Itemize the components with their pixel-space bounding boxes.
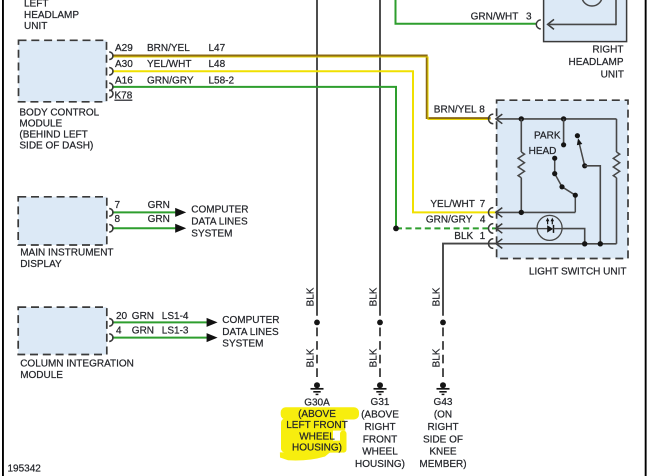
svg-text:DATA LINES: DATA LINES [222,327,279,338]
svg-text:3: 3 [526,11,532,22]
label YEL/WHT 7 [430,199,485,210]
light switch pin 1 internal bus [496,243,617,245]
svg-text:A16: A16 [115,75,133,86]
main instrument display box [18,197,107,245]
svg-text:HEADLAMP: HEADLAMP [568,57,623,68]
svg-text:GRN/WHT: GRN/WHT [471,11,519,22]
svg-text:SIDE OF DASH): SIDE OF DASH) [19,141,93,152]
junction splice dot wire G43 [440,320,446,326]
page border right [645,0,647,476]
wire GRN/WHT to right headlamp pin 3 [396,0,538,24]
wire BLK vertical to ground G30A [316,0,318,381]
junction dot pin1/wiper [598,241,603,246]
right headlamp inner wire [615,0,617,25]
wire GRN/GRY L58-2 from BCM A16 to splice [112,87,396,229]
svg-text:BRN/YEL: BRN/YEL [147,43,190,54]
svg-text:YEL/WHT: YEL/WHT [430,199,474,210]
svg-text:RIGHT: RIGHT [427,422,458,433]
right branch wire to resistor [616,119,618,152]
label pin A30 row [115,59,226,70]
junction dot pin1/LED [582,241,587,246]
splice dot GRN/GRY [393,226,399,232]
svg-text:UNIT: UNIT [601,69,624,80]
svg-text:MODULE: MODULE [20,370,63,381]
wire GRN LS1-4 from CIM pin 20 to data line arrow [112,321,208,323]
connector pin 4 at CIM [109,334,113,342]
svg-text:COMPUTER: COMPUTER [191,205,248,216]
wire YEL/WHT L48 from BCM A30 to light switch pin 7 [112,71,496,212]
svg-text:(ON: (ON [434,410,452,421]
svg-text:HOUSING): HOUSING) [292,443,342,454]
svg-text:HEAD: HEAD [529,146,557,157]
svg-text:COLUMN INTEGRATION: COLUMN INTEGRATION [20,359,134,370]
svg-text:K78: K78 [115,91,133,102]
label GRN/WHT 3 [471,11,532,22]
label pin A16 row [115,75,235,86]
svg-text:4: 4 [116,326,122,337]
wire BLK from light switch pin 1 to ground G43 [443,244,496,381]
svg-text:BLK: BLK [369,348,380,367]
svg-text:GRN: GRN [148,214,170,225]
resistor left [518,152,524,178]
column integration module box [18,307,107,354]
svg-text:L58-2: L58-2 [209,75,235,86]
wire BRN/YEL L47 from BCM A29 to light switch pin 8 [112,56,491,120]
svg-text:(BEHIND LEFT: (BEHIND LEFT [19,130,87,141]
label computer data lines system CIM [222,315,279,350]
arrowhead CIM pin20 [207,318,218,327]
label main instrument display [20,248,113,271]
light switch unit box [497,100,628,258]
arrowhead MID pin8 [175,224,186,233]
switch wiper arrow [575,133,588,168]
label BLK 1 [454,231,485,242]
svg-text:WHEEL: WHEEL [299,431,335,442]
label ground G43 [419,397,466,470]
svg-text:8: 8 [115,214,121,225]
label CIM pin 20 GRN LS1-4 [116,311,189,322]
svg-text:LIGHT SWITCH UNIT: LIGHT SWITCH UNIT [529,266,627,277]
wire GRN from MID pin 8 to data line arrow [112,227,177,229]
connector pin A30 at BCM [109,68,113,76]
svg-text:A29: A29 [115,43,133,54]
svg-text:(ABOVE: (ABOVE [298,409,336,420]
arrowhead CIM pin4 [207,333,218,342]
svg-text:SYSTEM: SYSTEM [191,228,232,239]
svg-text:RIGHT: RIGHT [592,45,623,56]
connector pin K78 at BCM [109,90,113,98]
wire GRN from MID pin 7 to data line arrow [112,211,177,213]
connector pin 1 at light switch [489,239,503,249]
ground symbol G30A [311,382,324,394]
LED indicator circle [537,215,562,240]
resistor right [613,152,619,178]
svg-text:SIDE OF: SIDE OF [423,434,463,445]
svg-text:LEFT: LEFT [24,0,48,10]
label MID pin 7 GRN [115,200,170,211]
svg-text:PARK: PARK [534,130,561,141]
svg-text:4: 4 [480,214,486,225]
connector pin A29 at BCM [109,52,113,60]
label body control module [19,108,99,152]
park contact dot [561,142,566,147]
svg-text:195342: 195342 [8,463,42,474]
svg-text:DATA LINES: DATA LINES [191,217,248,228]
svg-text:BLK: BLK [306,287,317,306]
label GRN/GRY 4 [426,214,486,225]
svg-text:LS1-3: LS1-3 [162,326,189,337]
right headlamp unit box [544,0,627,42]
label CIM pin 4 GRN LS1-3 [116,326,189,337]
svg-text:8: 8 [479,105,485,116]
connector pin 8 at MID [109,225,113,233]
park contact branch [563,119,565,145]
svg-text:COMPUTER: COMPUTER [222,315,279,326]
junction splice dot wire G30A [314,320,320,326]
svg-text:MEMBER): MEMBER) [419,459,466,470]
svg-text:LS1-4: LS1-4 [162,311,189,322]
LED diode symbol [537,218,562,233]
svg-text:BLK: BLK [369,287,380,306]
ground symbol G43 [437,382,450,394]
connector pin A16 at BCM [109,83,113,91]
arrowhead MID pin7 [175,208,186,217]
light switch pin 7 internal wire [496,211,575,213]
svg-text:A30: A30 [115,59,133,70]
connector pin 7 at MID [109,209,113,217]
svg-text:FRONT: FRONT [363,434,397,445]
svg-text:HEADLAMP: HEADLAMP [24,10,79,21]
svg-text:1: 1 [480,231,486,242]
label ground G31 [355,397,405,470]
svg-text:BLK: BLK [432,348,443,367]
junction dot top bus left [519,116,524,121]
svg-text:MAIN INSTRUMENT: MAIN INSTRUMENT [20,248,113,259]
svg-text:L48: L48 [209,59,226,70]
right branch wire resistor to pin1 bus [616,178,618,244]
svg-text:G30A: G30A [304,398,330,409]
svg-text:G43: G43 [434,397,453,408]
connector pin 8 at light switch [489,114,503,124]
svg-text:WHEEL: WHEEL [362,447,398,458]
svg-text:SYSTEM: SYSTEM [222,339,263,350]
label pin A29 row [115,43,226,54]
label BRN/YEL 8 [434,105,485,116]
svg-text:BODY CONTROL: BODY CONTROL [19,108,99,119]
LED feed wire to pin1 bus [562,229,585,244]
connector pin 3 at right headlamp [536,19,616,29]
label column integration module [20,359,134,382]
svg-text:20: 20 [116,311,128,322]
svg-text:BLK: BLK [432,287,443,306]
svg-text:GRN: GRN [132,311,154,322]
svg-text:7: 7 [115,200,121,211]
label left headlamp unit [24,0,79,32]
svg-text:BRN/YEL: BRN/YEL [434,105,477,116]
svg-text:DISPLAY: DISPLAY [20,259,62,270]
body control module box [19,40,107,102]
label ground G30A [286,398,347,454]
light switch top bus wire pin8 [496,118,617,120]
dashed GRN/GRY wire from splice to light switch pin 4 [396,227,496,229]
svg-text:GRN/GRY: GRN/GRY [147,75,194,86]
left branch wire to resistor [520,119,522,152]
left branch wire resistor to pin7 bus [520,178,522,213]
junction splice dot wire G31 [377,320,383,326]
svg-text:UNIT: UNIT [24,21,47,32]
svg-text:L47: L47 [209,43,226,54]
ground symbol G31 [374,382,387,394]
connector pin 20 at CIM [109,319,113,327]
page border left [2,0,4,476]
connector pin 4 at light switch [489,224,503,234]
svg-text:7: 7 [480,199,486,210]
svg-text:YEL/WHT: YEL/WHT [147,59,191,70]
label pin K78 [115,91,133,102]
svg-text:GRN: GRN [132,326,154,337]
wire GRN LS1-3 from CIM pin 4 to data line arrow [112,337,208,339]
svg-text:RIGHT: RIGHT [364,422,395,433]
svg-text:HOUSING): HOUSING) [355,459,405,470]
junction dot top bus mid [561,116,566,121]
junction dot pin7/resistor [519,210,524,215]
light switch pin 4 internal wire to LED [496,227,538,229]
wiper feed wire to pin1 bus [585,166,601,244]
head contact chain [552,156,578,213]
svg-text:BLK: BLK [306,348,317,367]
svg-text:BLK: BLK [454,231,473,242]
label computer data lines system MID [191,205,248,240]
label right headlamp unit [568,45,624,81]
svg-text:GRN: GRN [148,200,170,211]
svg-text:LEFT FRONT: LEFT FRONT [286,420,347,431]
highlighter mark on G30A location text [280,407,359,460]
wire BLK vertical to ground G31 [379,0,381,381]
svg-text:MODULE: MODULE [19,119,62,130]
svg-text:(ABOVE: (ABOVE [361,410,399,421]
svg-text:G31: G31 [371,397,390,408]
label MID pin 8 GRN [115,214,170,225]
right headlamp bulb [582,0,603,6]
svg-text:KNEE: KNEE [429,447,457,458]
svg-text:GRN/GRY: GRN/GRY [426,214,473,225]
connector pin 7 at light switch [489,208,503,218]
